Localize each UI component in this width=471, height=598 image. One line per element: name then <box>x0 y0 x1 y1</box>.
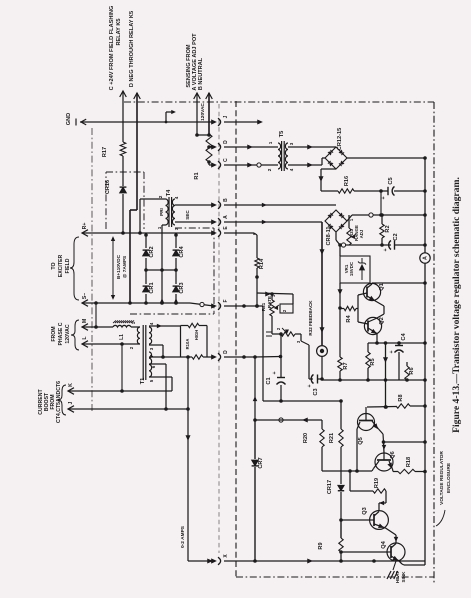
resistor R1 <box>206 134 212 162</box>
wire to pin D <box>209 146 214 148</box>
wire T4 sec to pin A <box>175 221 214 223</box>
capacitor C1 <box>280 334 282 377</box>
shield box around R17 CR16 dash-dot <box>105 172 107 229</box>
svg-text:+: + <box>381 196 387 199</box>
svg-text:Q2: Q2 <box>379 317 385 324</box>
wire pin D2 line extension to C1 wire <box>255 356 281 359</box>
Q1 Q2 base riser <box>356 308 358 310</box>
potentiometer R33 RANGE ADJ <box>348 215 350 228</box>
wire pin D to T5 <box>224 146 273 148</box>
transistor Q3 <box>370 511 389 530</box>
svg-text:PRI: PRI <box>159 208 164 216</box>
pin E <box>212 231 217 235</box>
svg-text:Q5: Q5 <box>358 437 364 444</box>
line py401 <box>263 400 341 402</box>
Q4 base line <box>341 551 387 553</box>
open circle on py420 line <box>279 418 283 422</box>
diode CR16 <box>120 187 127 193</box>
bridge mid tap to S line <box>161 270 163 303</box>
svg-text:S–: S– <box>82 293 88 299</box>
svg-text:2: 2 <box>267 168 272 171</box>
svg-text:M: M <box>82 319 88 323</box>
svg-text:B NEUTRAL: B NEUTRAL <box>198 57 204 90</box>
svg-text:SEC: SEC <box>185 210 190 220</box>
wire R31 bottom <box>271 316 273 334</box>
svg-text:4: 4 <box>174 196 179 199</box>
resistor R2 <box>380 213 384 217</box>
svg-text:R18: R18 <box>406 457 412 467</box>
svg-text:120VAC: 120VAC <box>200 103 206 121</box>
svg-text:R6: R6 <box>409 367 415 374</box>
transistor Q1 <box>363 283 380 300</box>
pin A <box>212 220 217 224</box>
svg-text:R32 FEEDBACK: R32 FEEDBACK <box>308 300 313 336</box>
R+ line <box>82 232 214 234</box>
svg-text:CR7: CR7 <box>258 457 264 468</box>
inductor L1 <box>113 321 116 324</box>
wire R14 bottom right <box>257 293 293 294</box>
svg-text:C1: C1 <box>266 377 272 384</box>
wire T1 pin6 to J line <box>149 363 166 365</box>
svg-text:3: 3 <box>149 347 154 350</box>
svg-text:CR8-11: CR8-11 <box>326 227 332 246</box>
svg-text:D NEG THROUGH RELAY K5: D NEG THROUGH RELAY K5 <box>129 11 135 87</box>
svg-text:A: A <box>423 256 429 260</box>
small cap mark <box>266 331 272 333</box>
main feed line to node B <box>321 222 323 345</box>
svg-text:3: 3 <box>289 142 294 145</box>
Q4 emitter to heat sink <box>393 561 396 570</box>
Q5 emitter to Q6 collector <box>382 434 385 442</box>
enclosure left edge dash-dot <box>91 128 93 412</box>
svg-text:R14: R14 <box>259 258 265 269</box>
svg-text:C: C <box>223 158 229 162</box>
svg-text:R8: R8 <box>398 394 404 401</box>
brace current boost <box>58 385 66 415</box>
wire B thick <box>208 93 210 134</box>
wire down to CR7 <box>254 357 256 420</box>
capacitor C2 <box>389 241 391 250</box>
node A circle <box>420 253 430 263</box>
svg-text:2: 2 <box>158 195 163 198</box>
Q1 emitter to Q2 collector <box>375 301 385 307</box>
svg-text:SINK: SINK <box>401 571 406 583</box>
wire T1 pin5 to K line <box>149 376 172 378</box>
diode CR17 <box>338 485 344 490</box>
node B down <box>321 356 323 379</box>
svg-text:3: 3 <box>174 227 179 230</box>
svg-text:+: + <box>272 371 278 374</box>
brace phase C <box>71 320 79 350</box>
wire C mid <box>122 156 124 186</box>
B+ dimension arrow <box>112 238 114 298</box>
Q4 emitter to bus corner <box>399 561 403 565</box>
shield dash-dot segments near T4 <box>175 227 214 229</box>
wire pin A to CR8-11 west <box>224 221 322 223</box>
bridge CR12-15 <box>325 147 347 169</box>
S to M link <box>95 303 97 327</box>
resistor R7 <box>339 308 341 357</box>
pin F <box>212 304 217 308</box>
diode CR1 <box>145 258 147 284</box>
pin C <box>212 163 217 167</box>
S line to pin F <box>82 302 190 304</box>
wire pin C to T5 <box>224 164 273 166</box>
heat sink <box>387 571 391 579</box>
svg-text:CR16: CR16 <box>105 180 111 194</box>
line py471 to Q6 base <box>322 470 372 472</box>
svg-text:120VAC: 120VAC <box>65 324 71 343</box>
bridge CR8-11 <box>325 210 347 232</box>
wire pin B to CR8-11 north <box>224 204 336 206</box>
line py245 <box>340 244 391 246</box>
svg-text:Figure 4-13.—Transistor voltag: Figure 4-13.—Transistor voltage regulato… <box>451 177 462 433</box>
resistor R14 <box>254 233 257 235</box>
svg-text:Q3: Q3 <box>362 507 368 514</box>
svg-text:ENCLOSURE: ENCLOSURE <box>446 462 452 493</box>
enclosure top edge dash-dot <box>124 101 434 103</box>
svg-text:+: + <box>389 350 395 353</box>
wire T1 pin3 stub <box>149 344 163 346</box>
svg-text:4: 4 <box>289 168 294 171</box>
Q3 base line <box>341 519 370 521</box>
terminal B arrow <box>206 93 213 99</box>
potentiometer R31 RATE <box>270 292 274 296</box>
resistor R18 <box>393 471 398 473</box>
resistor R5 <box>367 343 369 352</box>
resistor R9 <box>340 520 342 538</box>
svg-text:R7: R7 <box>343 362 349 369</box>
svg-text:R17: R17 <box>102 147 108 157</box>
svg-text:TO: TO <box>51 262 57 269</box>
resistor R20 <box>255 419 322 421</box>
svg-text:F: F <box>223 299 229 302</box>
wire C <box>122 91 124 142</box>
terminal C arrow <box>120 91 127 97</box>
resistor R17 <box>120 142 126 156</box>
resistor R21 rail <box>340 401 342 429</box>
svg-text:HIGH: HIGH <box>194 330 199 340</box>
resistor R16 <box>338 189 354 193</box>
VR1 left rail <box>339 245 341 256</box>
svg-text:R20: R20 <box>303 433 309 443</box>
bridge mid rail <box>146 269 176 271</box>
svg-text:HEAT: HEAT <box>395 571 400 583</box>
svg-text:1: 1 <box>268 141 273 144</box>
svg-text:FROM: FROM <box>51 326 57 341</box>
wire R16 to C5 <box>354 190 388 192</box>
terminal A arrow <box>194 93 201 99</box>
svg-text:R10A: R10A <box>185 339 190 350</box>
potentiometer R32 FEEDBACK <box>281 332 295 336</box>
svg-text:R31: R31 <box>261 302 266 311</box>
transistor Q2 <box>364 317 381 334</box>
svg-text:CR12-15: CR12-15 <box>337 128 343 150</box>
svg-text:CR3: CR3 <box>179 282 185 293</box>
enclosure right edge dash-dot <box>433 102 435 584</box>
transistor Q4 <box>387 543 405 561</box>
svg-text:Q1: Q1 <box>379 283 385 290</box>
R19 to Q3 collector <box>385 491 387 503</box>
node B circle <box>317 346 328 357</box>
resistor R6 <box>406 362 408 366</box>
svg-text:J: J <box>68 401 74 404</box>
main bus right side <box>424 158 426 565</box>
wire T4 sec to pin B <box>175 204 214 206</box>
svg-text:C4: C4 <box>401 333 407 341</box>
svg-text:5: 5 <box>149 379 154 382</box>
svg-text:+: + <box>307 384 313 387</box>
bottom line left <box>188 560 214 562</box>
svg-text:R21: R21 <box>329 433 335 443</box>
link C5 line to east line <box>380 191 382 215</box>
svg-text:D: D <box>223 350 229 354</box>
transistor Q5 <box>358 414 375 431</box>
pin D2 <box>212 355 217 359</box>
diode CR2 <box>145 235 147 248</box>
Q6 collector line to bus <box>384 441 426 443</box>
wire after pin J <box>224 121 258 123</box>
svg-text:15VDC: 15VDC <box>349 261 354 276</box>
svg-text:C2: C2 <box>393 233 399 240</box>
wire CR12-15 east to bus <box>347 157 425 159</box>
wire T1 pin4 to R10 box <box>149 325 181 327</box>
transistor Q6 <box>375 453 393 471</box>
svg-text:1: 1 <box>157 226 162 229</box>
wire C to R+ line <box>122 194 124 233</box>
wire C5 to bus <box>394 190 425 192</box>
bottom line right <box>224 560 425 562</box>
svg-text:@ 7AMPS: @ 7AMPS <box>122 255 128 278</box>
line py343 <box>368 342 425 344</box>
wire R32 to C3 riser <box>295 333 301 335</box>
wire T1 pin7 to pin D2 <box>149 356 192 358</box>
svg-text:PHASE C: PHASE C <box>58 322 64 345</box>
svg-text:FIELD: FIELD <box>65 258 71 273</box>
wire T5 to CR12-15 north <box>292 146 336 148</box>
svg-text:CR4: CR4 <box>179 246 185 258</box>
svg-text:A: A <box>223 215 229 219</box>
GND wire to pin J <box>80 121 214 123</box>
wire CR8-11 south to line <box>335 232 337 240</box>
brace exciter field <box>70 237 79 300</box>
Q2 emitter down <box>376 334 378 344</box>
wire CR8-11 east output <box>347 215 352 221</box>
svg-text:B+110VDC: B+110VDC <box>116 254 122 279</box>
svg-text:4: 4 <box>149 322 154 325</box>
resistor loop R10A HIGH box <box>180 326 182 358</box>
svg-text:0-2 AMPS: 0-2 AMPS <box>180 525 186 548</box>
resistor R19 <box>349 471 351 491</box>
diode CR7 <box>254 420 256 459</box>
svg-text:C +24V FROM FIELD FLASHING: C +24V FROM FIELD FLASHING <box>109 6 115 91</box>
diode CR3 <box>175 258 177 284</box>
svg-text:R1: R1 <box>194 172 200 179</box>
rail px385 with arrow <box>385 343 387 407</box>
svg-text:Q6: Q6 <box>390 451 396 458</box>
svg-text:R19: R19 <box>374 478 380 488</box>
inner boundary dashed line <box>235 101 237 577</box>
connector boundary dashed line <box>218 104 220 553</box>
resistor R8 <box>367 406 396 409</box>
pin D <box>212 145 217 149</box>
pin B <box>212 203 217 207</box>
svg-text:EXCITER: EXCITER <box>58 255 64 278</box>
zener VR1 box <box>340 256 370 283</box>
svg-text:L1: L1 <box>119 334 125 340</box>
zener diode VR1 <box>361 258 363 263</box>
svg-text:RELAY K5: RELAY K5 <box>116 18 122 45</box>
svg-text:R2: R2 <box>385 225 391 232</box>
svg-text:VOLTAGE REGULATOR: VOLTAGE REGULATOR <box>439 451 445 505</box>
wire C2 to bus <box>395 244 426 246</box>
svg-text:D: D <box>223 140 229 144</box>
wire T4 pin2 left <box>140 198 166 200</box>
stub L to K line <box>121 344 123 391</box>
enclosure bottom edge dash-dot <box>236 576 434 578</box>
svg-text:T4: T4 <box>166 189 172 196</box>
svg-text:B: B <box>223 198 229 202</box>
pin J <box>212 120 217 124</box>
wire D thick <box>136 93 138 210</box>
capacitor C5 <box>387 187 389 195</box>
Q1 collector line to bus <box>372 282 425 284</box>
svg-text:GND: GND <box>66 113 72 125</box>
wire pin F right <box>224 305 263 307</box>
GND hook arrow <box>165 112 167 122</box>
svg-text:K: K <box>68 383 74 387</box>
svg-text:C3: C3 <box>313 388 319 395</box>
box near wiper <box>280 304 293 313</box>
wire T4 pin1 down <box>162 224 166 226</box>
svg-text:CR2: CR2 <box>149 246 155 257</box>
svg-text:Q4: Q4 <box>381 540 387 548</box>
terminal D arrow <box>134 93 141 99</box>
svg-text:CR17: CR17 <box>327 480 333 494</box>
svg-text:R9: R9 <box>318 542 324 549</box>
svg-text:T5: T5 <box>279 131 285 138</box>
diode CR4 <box>175 235 177 248</box>
svg-text:J: J <box>223 115 229 118</box>
capacitor C4 <box>398 343 400 345</box>
capacitor C3 <box>311 375 313 384</box>
svg-text:R4: R4 <box>346 315 352 323</box>
svg-text:R16: R16 <box>344 176 350 186</box>
svg-text:C5: C5 <box>388 177 394 184</box>
svg-text:CR1: CR1 <box>149 282 155 293</box>
Q3 emitter to Q4 <box>386 528 397 535</box>
svg-text:6: 6 <box>151 365 156 368</box>
svg-text:R5: R5 <box>370 358 376 365</box>
svg-text:ADJ: ADJ <box>359 229 364 238</box>
wire pin D2 right <box>224 356 255 358</box>
wire A <box>196 93 198 135</box>
svg-text:+: + <box>383 248 389 251</box>
wire R1 to pin C <box>208 162 210 165</box>
0-2 amps wire <box>187 357 189 561</box>
wire CR12-15 south output <box>321 168 336 170</box>
resistor R4 <box>344 306 356 310</box>
pin X <box>212 559 217 563</box>
line py380 <box>322 379 425 381</box>
wire T5 to CR12-15 west <box>292 164 322 166</box>
wire to rate cluster <box>292 294 294 304</box>
svg-text:R+: R+ <box>82 223 88 230</box>
resistor R10B in D2 line <box>192 355 203 359</box>
